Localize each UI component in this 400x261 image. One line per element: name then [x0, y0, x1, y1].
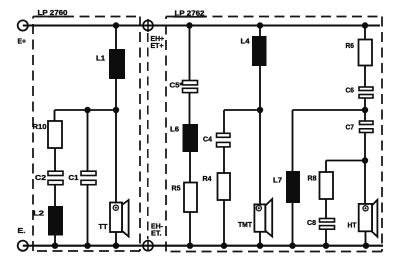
svg-text:TT: TT — [99, 222, 108, 231]
speaker TT — [110, 200, 129, 237]
wire C2 to L2 — [54, 185, 56, 206]
inductor L6 — [183, 124, 199, 152]
node L1 bottom — [113, 107, 119, 113]
wire TMT top — [259, 110, 261, 204]
svg-text:ET+: ET+ — [151, 43, 164, 50]
resistor R5 — [184, 183, 197, 213]
svg-text:L7: L7 — [273, 176, 282, 185]
svg-text:ET.: ET. — [151, 231, 162, 238]
inter-board dashed link line — [147, 33, 149, 239]
wire L6 to R5 — [189, 152, 191, 183]
node L2 bottom bus — [52, 243, 58, 249]
node C6 C7 junction — [362, 107, 368, 113]
node L4 top bus — [257, 22, 263, 28]
node L7 bottom bus — [289, 243, 295, 249]
wire RC shunt horizontal — [55, 109, 117, 111]
svg-text:L1: L1 — [96, 54, 105, 63]
svg-text:R5: R5 — [172, 184, 181, 193]
capacitor C5* — [183, 81, 198, 93]
svg-text:TMT: TMT — [238, 220, 252, 229]
node C1 bottom bus — [84, 243, 90, 249]
speaker TMT — [254, 199, 272, 237]
svg-text:R4: R4 — [203, 174, 213, 183]
svg-text:R8: R8 — [308, 174, 317, 183]
wire TT top — [115, 110, 117, 203]
svg-text:R6: R6 — [346, 41, 355, 50]
wire C4 to R4 — [223, 147, 225, 173]
capacitor C8 — [320, 219, 335, 230]
wire C6 to C7 — [364, 98, 366, 121]
node HT bottom bus — [363, 243, 369, 249]
svg-text:C7: C7 — [346, 123, 355, 132]
wire L4 bottom — [259, 66, 261, 110]
wire R10 to C2 — [54, 148, 56, 171]
wire R6 top — [364, 26, 366, 40]
wire L7 bottom — [292, 203, 294, 246]
node TMT bottom bus — [257, 243, 263, 249]
wire C8 bottom — [325, 229, 327, 246]
capacitor C1 — [81, 171, 96, 185]
terminal EH+/ET+ — [143, 19, 153, 32]
wire TT bottom — [115, 232, 117, 246]
svg-text:L6: L6 — [170, 125, 179, 134]
svg-text:EH-: EH- — [151, 224, 164, 231]
label underline LP2760 — [36, 16, 69, 18]
inductor L2 — [48, 206, 63, 236]
wire R10 top — [54, 110, 56, 121]
capacitor C2 — [48, 171, 63, 185]
resistor R10 — [48, 121, 62, 148]
wire R8 top — [325, 161, 327, 173]
node R5 bottom bus — [187, 243, 193, 249]
wire C7 to HT — [364, 133, 366, 205]
board outline LP2762 — [166, 17, 382, 252]
speaker HT — [359, 200, 378, 237]
capacitor C7 — [360, 121, 374, 133]
resistor R6 — [359, 40, 373, 66]
svg-text:C5*: C5* — [170, 83, 183, 90]
resistor R8 — [320, 172, 334, 199]
wire R8 to C8 — [325, 199, 327, 219]
svg-text:C2: C2 — [35, 173, 46, 182]
svg-text:C6: C6 — [346, 86, 355, 95]
svg-text:LP 2760: LP 2760 — [38, 8, 68, 17]
inductor L7 — [286, 171, 300, 203]
terminal EH-/ET- — [143, 240, 153, 252]
wire HT bottom — [365, 231, 367, 245]
wire R5 bottom — [189, 212, 191, 246]
node R6 top bus — [362, 22, 368, 28]
capacitor C6 — [359, 87, 373, 98]
wire C5 to L6 — [189, 93, 191, 124]
svg-text:E+: E+ — [18, 37, 27, 46]
node L1 top bus — [113, 22, 119, 28]
wire C4 top — [223, 110, 225, 133]
board outline LP2760 — [33, 17, 140, 252]
svg-text:HT: HT — [348, 221, 357, 230]
svg-text:LP 2762: LP 2762 — [175, 9, 205, 18]
resistor R4 — [218, 173, 231, 200]
terminal E- — [18, 241, 28, 251]
wire R8 branch horizontal — [326, 160, 365, 162]
node C5 top bus — [186, 22, 192, 28]
wire L2 bottom — [54, 236, 56, 246]
node C8 bottom bus — [323, 243, 329, 249]
svg-text:C4: C4 — [203, 135, 213, 144]
inductor L4 — [252, 36, 267, 66]
svg-text:C1: C1 — [69, 173, 79, 182]
node C1 branch — [84, 107, 90, 113]
wire L4 top — [259, 26, 261, 37]
wire L1 bottom — [115, 79, 117, 110]
wire L1 top — [115, 26, 117, 50]
wire TMT bottom — [259, 232, 261, 246]
inductor L1 — [109, 49, 125, 79]
node TT bottom bus — [113, 243, 119, 249]
svg-text:EH+: EH+ — [151, 36, 165, 43]
svg-text:L4: L4 — [241, 37, 251, 46]
node L4 bottom — [257, 107, 263, 113]
wire R6 to C6 — [364, 66, 366, 88]
svg-text:R10: R10 — [33, 122, 47, 131]
node R8 branch junction — [362, 157, 368, 163]
svg-text:L2: L2 — [33, 209, 44, 218]
wire top bus — [23, 24, 380, 26]
wire C1 bottom — [87, 185, 89, 246]
terminal E+ — [18, 20, 28, 30]
wire R4 bottom — [223, 200, 225, 246]
label underline LP2762 — [173, 16, 205, 18]
wire L7 branch horizontal — [293, 109, 366, 111]
node R4 bottom bus — [221, 243, 227, 249]
wire C1 top — [87, 110, 89, 171]
wire C5 top — [189, 26, 191, 81]
wire L7 top — [292, 110, 294, 171]
wire bottom bus — [23, 245, 383, 247]
svg-text:E.: E. — [18, 226, 26, 235]
wire C4 branch horizontal — [224, 109, 260, 111]
svg-text:C8: C8 — [307, 218, 316, 227]
capacitor C4 — [217, 133, 231, 147]
